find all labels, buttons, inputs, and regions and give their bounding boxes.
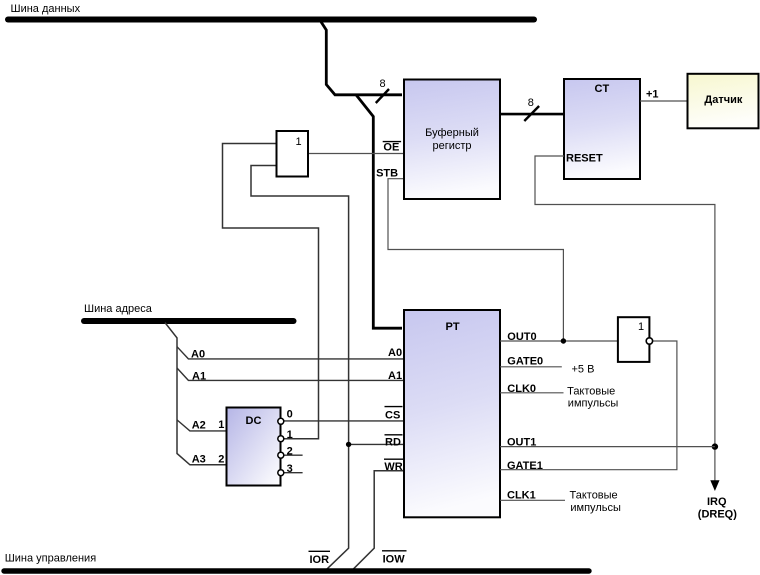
svg-text:+5 В: +5 В [572,363,595,375]
wire: OUT1 to junction [500,446,715,448]
svg-text:импульсы: импульсы [570,502,621,514]
wire: CT to sensor (+1 count input) [640,100,688,102]
overline OE [383,141,401,143]
svg-text:+1: +1 [646,88,659,100]
wire: IOR line to gate D1 input B and PT RD [251,166,349,570]
svg-text:1: 1 [218,419,224,431]
gate D2 (logic "1" with inverting output) [618,317,650,362]
svg-text:A0: A0 [191,348,205,360]
wire: DC output 1 to gate D1 input A [223,144,319,439]
timer PT [404,310,500,517]
svg-text:RESET: RESET [566,152,603,164]
address bus (Шина адреса) [84,318,294,324]
wire: CLK0 stub [500,392,564,394]
counter CT [564,79,640,179]
junction: OUT1 / IRQ [712,443,718,449]
svg-text:IRQ: IRQ [707,496,727,508]
control bus (Шина управления) [4,568,589,573]
svg-text:регистр: регистр [432,140,471,152]
svg-text:IOR: IOR [310,554,330,566]
wire: OUT0 node to buffer STB [388,179,563,341]
wire: gate D2 output to GATE1 [500,341,677,470]
sensor (Датчик) [688,74,759,129]
wire: CLK1 stub [500,499,565,501]
svg-text:2: 2 [287,445,293,457]
buffer register (Буферный регистр) [404,80,500,200]
decoder DC [227,408,281,486]
svg-text:0: 0 [287,409,293,421]
bus-width slash (8) at buffer input [376,89,389,103]
svg-text:IOW: IOW [383,553,406,565]
svg-text:CT: CT [595,83,610,95]
arrowhead IRQ [710,480,719,491]
wire: WR pin to IOW line [353,471,404,569]
wire A0 [177,347,404,359]
junction: IOR / RD [346,442,351,447]
data bus (Шина данных) [8,17,534,23]
svg-text:импульсы: импульсы [568,398,619,410]
overline CS [385,406,403,408]
svg-text:Шина управления: Шина управления [5,553,97,565]
overline WR [384,458,403,460]
DC output terminal 0 [278,418,284,424]
svg-text:Тактовые: Тактовые [570,489,618,501]
wire: DC output 0 to PT CS [284,420,404,422]
wire: buffer register to counter CT (thick, 8 bits) [500,113,564,116]
svg-text:3: 3 [287,463,293,475]
svg-text:Буферный: Буферный [425,127,479,139]
svg-text:Шина данных: Шина данных [11,3,81,15]
svg-text:A2: A2 [192,420,206,432]
svg-text:PT: PT [446,321,460,333]
gate D1 (logic "1") [277,131,309,177]
wire: OUT0 to gate D2 input [500,340,618,342]
svg-text:8: 8 [380,78,386,90]
wire A1 [177,368,404,380]
DC output terminal 3 [278,470,284,476]
svg-text:Шина адреса: Шина адреса [84,303,153,315]
overline IOR [309,550,331,552]
svg-text:1: 1 [287,429,293,441]
svg-text:A1: A1 [388,370,402,382]
svg-text:A3: A3 [192,454,206,466]
svg-text:2: 2 [218,453,224,465]
wire: data bus to buffer register (thick, 8 bits) [321,21,403,95]
DC output terminal 2 [278,452,284,458]
overline RD [385,434,403,436]
svg-text:CS: CS [385,409,400,421]
wire: GATE0 stub (+5 V) [500,366,562,368]
DC output terminal 1 [278,436,284,442]
inverter bubble (gate D2 output) [646,338,652,344]
svg-text:1: 1 [296,136,302,148]
junction: OUT0 / STB [561,338,566,343]
bus-width slash (8) at CT input [524,106,539,121]
wire: data bus branch to timer PT (thick) [356,95,402,328]
svg-text:RD: RD [385,436,401,448]
svg-text:OE: OE [383,142,399,154]
svg-text:DC: DC [246,415,262,427]
svg-text:GATE0: GATE0 [507,355,543,367]
wire: address bus trunk and A3 branch [165,323,227,465]
svg-text:Тактовые: Тактовые [567,386,615,398]
svg-text:A0: A0 [388,347,402,359]
svg-text:STB: STB [376,168,398,180]
wire: RD pin [349,443,404,445]
wire: gate D1 output to buffer OE [308,153,404,155]
svg-text:(DREQ): (DREQ) [698,509,737,521]
wire: DC output 2 stub [284,454,303,456]
svg-text:1: 1 [638,321,644,333]
wire: OUT1 to CT RESET and IRQ arrow [535,156,715,481]
svg-text:WR: WR [384,461,402,473]
overline IOW [382,550,407,552]
wire: DC output 3 stub [284,472,303,474]
wire A2 [177,420,227,431]
svg-text:8: 8 [528,97,534,109]
svg-text:A1: A1 [192,370,206,382]
svg-text:Датчик: Датчик [704,94,742,106]
